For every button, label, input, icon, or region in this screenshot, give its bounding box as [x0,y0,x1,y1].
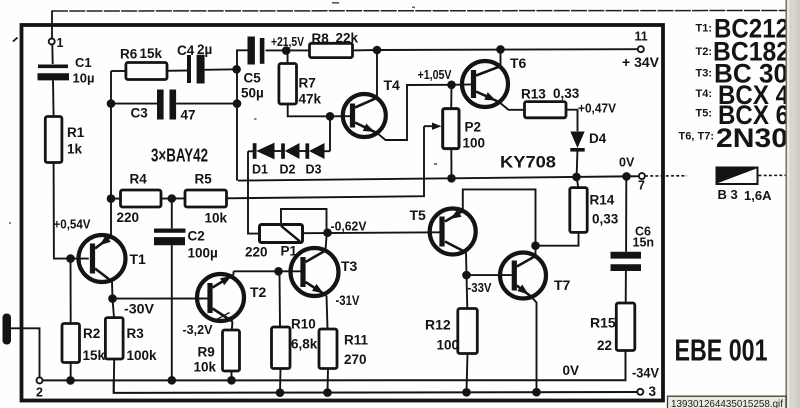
diode chain wire from P1 branch [248,150,253,152]
transistor T4 BCX4x [343,94,386,137]
svg-text:-30V: -30V [124,302,154,317]
main schematic border frame [22,25,664,401]
wire T5 emitter loop to output node [463,189,536,245]
svg-text:KY708: KY708 [500,153,556,172]
resistor R10 6,8k [272,327,291,369]
wire C5 to R8 with +21,5V node [266,49,310,51]
wire top supply line [52,10,786,13]
svg-text:0V: 0V [619,156,635,170]
wire T5 collector to -33V node [465,252,468,275]
svg-text:C1: C1 [75,55,92,70]
terminal 1 [49,39,55,45]
wire +34V top rail to terminal 11 [377,48,638,51]
junction D4/R14 [572,173,581,182]
junction P2 bottom [447,174,456,183]
transistor T7 2N30xx [500,253,546,299]
filename tooltip [668,396,787,408]
svg-text:T4:: T4: [696,88,713,100]
junction T4 base node [326,112,335,121]
resistor R1 1k [45,117,62,163]
svg-text:220: 220 [117,210,140,225]
wire P1 right to T5 base [303,231,441,234]
svg-text:T2: T2 [250,284,267,300]
svg-text:T6, T7:: T6, T7: [679,130,714,142]
resistor R13 0,33 [525,102,567,118]
fuse B3 1,6A [716,167,759,186]
junction R4/R5/C2 [161,197,185,199]
svg-text:100µ: 100µ [188,246,218,261]
node T1 base / R2 junction [66,254,75,263]
wire node to R2 [70,259,72,324]
svg-text:R3: R3 [127,326,145,341]
svg-text:T7: T7 [554,277,571,293]
resistor R5 10k [185,190,227,207]
resistor R9 10k [223,330,240,371]
svg-text:R8: R8 [312,31,330,46]
wire D1-D2 [275,150,282,152]
svg-text:+21,5V: +21,5V [271,35,305,49]
wire 0V ground rail A [42,351,625,381]
junction R11 on rail B [323,388,332,397]
terminal 2 [37,377,43,383]
svg-text:+1,05V: +1,05V [418,68,453,82]
diode D1 [253,143,257,159]
svg-text:139301264435015258.gif: 139301264435015258.gif [671,398,783,408]
svg-text:T2:: T2: [696,46,713,58]
wire R2 to ground rail [70,363,72,381]
wire D2-D3 [300,150,306,152]
wire feedback vertical R6/C3/R4/T1-emitter [110,71,112,237]
svg-text:7: 7 [638,179,645,193]
svg-text:47: 47 [181,108,196,123]
potentiometer P1 220 [260,225,303,243]
svg-text:15k: 15k [83,348,106,363]
resistor R2 15k [62,324,80,363]
svg-text:50µ: 50µ [241,86,264,101]
wire terminal7 to fuse [645,175,687,177]
svg-text:+0,47V: +0,47V [578,102,617,116]
capacitor C5 50u [247,37,254,65]
capacitor C1 10u [38,65,68,69]
svg-text:T5:: T5: [696,108,713,120]
resistor R14 0,33 [577,177,579,188]
svg-text:D1: D1 [252,163,268,177]
svg-text:2N30: 2N30 [716,123,788,153]
resistor R12 100 [458,309,478,354]
svg-text:R15: R15 [590,315,616,331]
svg-text:-0,62V: -0,62V [331,220,368,234]
bias rail from C-junction to 0V terminal [238,176,642,180]
svg-text:D2: D2 [280,163,296,177]
transistor T6 2N30xx [462,61,508,107]
junction R10 on rail B [276,388,285,397]
wire node down to diode chain [329,116,331,151]
svg-text:15n: 15n [633,236,655,250]
wire -34V rail B [114,380,638,393]
svg-text:3×BAY42: 3×BAY42 [151,145,208,166]
svg-text:R7: R7 [299,76,316,91]
svg-text:0V: 0V [563,363,580,378]
junction R12 on rail B [462,388,471,397]
svg-text:R13: R13 [521,87,546,102]
svg-text:47k: 47k [299,92,322,107]
node +1,05V P2 top [447,81,456,90]
junction C4/C5 node [232,65,241,74]
wire C1 to R1 [52,80,55,116]
svg-text:0,33: 0,33 [592,212,619,227]
wire C4 to junction [205,68,237,71]
svg-text:T4: T4 [384,77,401,93]
svg-text:D4: D4 [589,131,607,146]
svg-text:+ 34V: + 34V [622,55,659,70]
junction C3 left [107,99,116,108]
junction T7 emitter on rail B [532,388,541,397]
wire node to T4 base [330,115,350,117]
svg-text:R5: R5 [195,172,213,187]
junction C3 right [233,99,242,108]
junction C6 [622,172,631,181]
svg-text:R6: R6 [120,47,138,62]
svg-text:-34V: -34V [632,366,659,381]
wire connector to terminal 2 [11,328,40,377]
capacitor C4 2u [187,55,191,83]
svg-text:10µ: 10µ [73,71,95,86]
svg-text:R9: R9 [198,345,215,360]
transistor T1 BC212 [79,235,126,282]
svg-text:T3:: T3: [696,68,713,80]
junction T3 base / R10 [274,267,283,276]
svg-text:R1: R1 [67,125,85,140]
junction T6 collector [496,45,505,54]
svg-text:100: 100 [463,136,486,151]
wire base line T1 node to T2 base [113,298,208,300]
transistor T2 BC182 [197,274,244,321]
svg-text:C5: C5 [244,71,262,86]
terminal 3 [637,389,643,395]
wire P1 wiper loop [281,209,327,233]
diode D3 [305,143,309,158]
wire C2 to ground rail [171,245,173,380]
svg-text:11: 11 [635,30,648,44]
svg-text:R10: R10 [291,317,316,332]
wire C3 left branch [111,103,157,105]
capacitor C3 47 [157,90,164,120]
svg-text:-3,2V: -3,2V [183,323,214,337]
svg-text:15k: 15k [140,46,163,61]
svg-text:1: 1 [57,36,64,50]
node -33V [462,271,471,280]
scrollbar strip right edge [786,0,800,408]
input connector J2 [3,314,12,345]
capacitor C2 100u [171,199,173,229]
svg-text:R4: R4 [130,172,148,187]
svg-text:R2: R2 [83,326,100,341]
wire R6 to C4 [167,70,187,72]
svg-text:-31V: -31V [336,293,360,308]
resistor R11 270 [319,329,337,369]
wire node to T7 base [467,274,512,276]
transistor T5 BCX6x [430,209,476,255]
diode D2 [281,143,285,158]
wire fuse right [759,174,787,176]
node -0,62V [323,228,332,237]
junction R2 on rail A [66,376,75,385]
wire C3 right to vertical [176,103,237,105]
wire +1,05V node to T6 base [452,83,472,85]
resistor R8 22k [310,43,353,57]
wire node to R12 [466,275,469,308]
svg-text:R11: R11 [344,333,369,348]
svg-text:C3: C3 [131,106,149,121]
scan speckles [13,38,18,42]
wire D4 to bias rail [576,152,579,177]
svg-text:-33V: -33V [468,281,493,295]
svg-text:P2: P2 [465,120,482,135]
svg-text:22k: 22k [336,31,359,46]
wire diode chain left down to P1 [248,151,260,233]
wire D3 to T4 base branch [325,150,331,152]
label pointer line -3,2V [213,313,230,322]
resistor R7 47k [279,64,297,105]
wire R7 to T4 base node [288,104,330,116]
svg-text:3: 3 [649,384,657,399]
resistor R15 22 [616,303,635,351]
wire junction down to R10 [279,271,282,327]
wire R13 to D4 [566,110,578,132]
transistor T3 BC30x [291,248,339,296]
svg-text:1k: 1k [67,142,83,157]
svg-text:T3: T3 [341,258,358,274]
svg-text:10k: 10k [194,360,217,375]
svg-text:C2: C2 [188,229,205,244]
wire T1 collector node to R3 [108,294,117,303]
wire R5 to P2 wiper branch [227,126,425,198]
svg-text:0,33: 0,33 [553,86,580,101]
diode D4 [570,132,584,149]
resistor R4 220 [111,198,121,200]
svg-text:10k: 10k [205,211,228,226]
svg-text:2: 2 [36,386,43,400]
svg-text:T5: T5 [410,207,427,223]
svg-text:270: 270 [344,352,367,367]
svg-text:EBE 001: EBE 001 [675,333,768,368]
wire P2 bottom to bias rail [450,149,452,179]
svg-text:T6: T6 [510,55,527,71]
svg-text:1,6A: 1,6A [744,188,772,203]
svg-text:T1: T1 [130,251,147,267]
wire junction vertical C5/C4/C3 to bias rail [237,50,248,180]
junction output node T5/T7 collector R14 [531,241,540,250]
svg-text:22: 22 [597,338,612,353]
wire R3 to -34V rail [113,359,116,393]
svg-text:C4: C4 [177,43,195,58]
svg-text:+0,54V: +0,54V [54,218,92,232]
svg-text:6,8k: 6,8k [291,337,318,352]
terminal 11 +34V [638,46,644,52]
svg-text:B 3: B 3 [718,187,738,202]
svg-text:D3: D3 [306,163,322,177]
resistor R6 15k [111,70,126,72]
junction R9 on rail A [227,376,236,385]
wire R14 bottom to output node [536,232,579,245]
svg-text:R12: R12 [425,317,451,333]
capacitor C6 15n [625,176,627,251]
wire P2 top to +1,05V node [450,85,452,109]
resistor R3 100k [105,318,123,359]
junction C2 branch on rail A [168,376,177,385]
wire node to R7 [287,51,289,64]
svg-text:100: 100 [437,338,460,353]
wire R8 right junction [353,49,378,51]
potentiometer P2 100 [443,109,459,149]
terminal 7 0V [639,173,645,179]
svg-text:R14: R14 [590,193,615,208]
wire C6 to R15 [625,271,627,303]
wire T2 emitter to T3 base [234,270,301,272]
junction R4 left [107,194,116,203]
svg-text:T1:: T1: [696,23,713,35]
svg-text:220: 220 [245,245,268,260]
wire R1 down to T1 base node [54,163,89,259]
svg-text:100k: 100k [127,348,158,363]
svg-text:2µ: 2µ [197,42,212,57]
wire terminal1 to C1 [51,44,53,64]
